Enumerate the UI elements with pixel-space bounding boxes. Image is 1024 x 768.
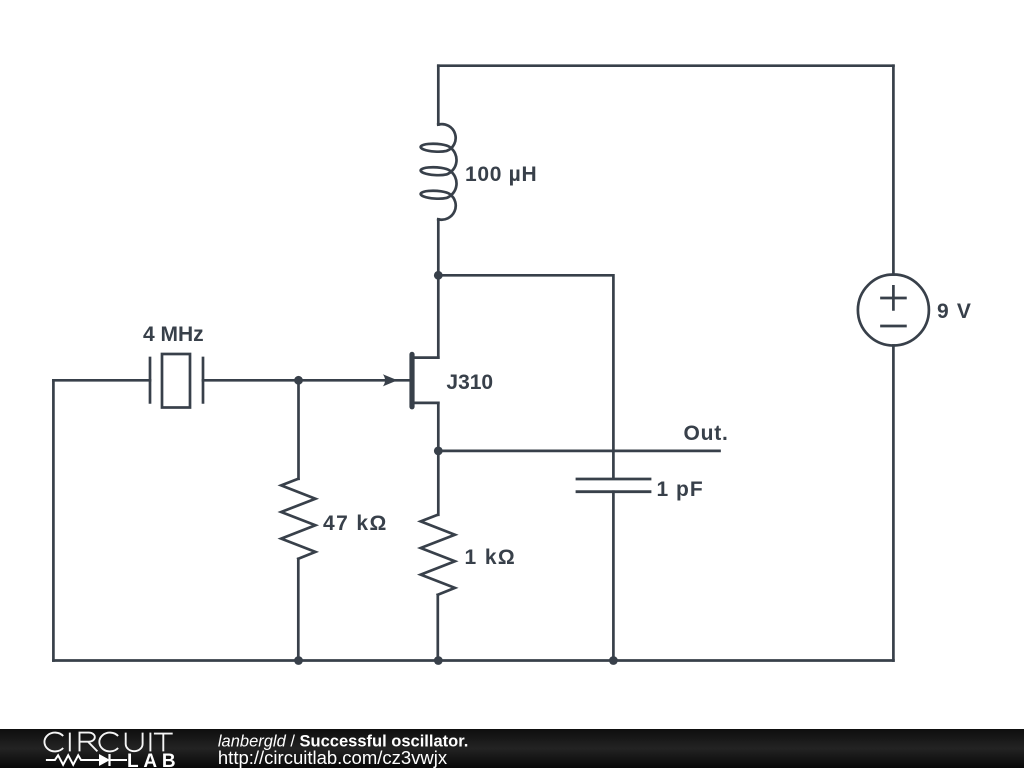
svg-text:47 kΩ: 47 kΩ [323,512,388,535]
svg-text:http://circuitlab.com/cz3vwjx: http://circuitlab.com/cz3vwjx [218,747,448,768]
node dot source/out [434,447,443,456]
wire inductor bottom lead to drain tee [437,219,440,275]
svg-text:100 µH: 100 µH [465,163,537,186]
svg-text:4 MHz: 4 MHz [143,323,204,346]
wire V+ branch lower [892,346,895,661]
voltage source V1 circle [858,275,929,346]
voltage source minus sign [882,325,906,328]
footer bar [0,729,1024,768]
inductor L1 coil [421,124,457,220]
crystal X1 plates and body [150,354,203,408]
wire crystal junction down to 47k [297,380,300,479]
capacitor C1 plates [577,479,650,492]
wire tee to capacitor branch top [438,275,613,477]
wire 1k bottom lead [436,595,439,661]
wire JFET source down to out node [437,403,440,451]
node dot gate junction [294,376,303,385]
svg-text:1 pF: 1 pF [657,478,704,501]
transistor Q1 J310 JFET [383,354,439,406]
logo resistor-diode glyph [46,754,127,766]
svg-text:9 V: 9 V [937,300,972,323]
resistor R1 47k zigzag [281,479,315,559]
CircuitLab logo CIRCUIT [44,733,172,752]
wire out node to 1k top [437,451,440,515]
wire gate row left of crystal [53,379,150,382]
node dot bottom cap [609,656,618,665]
wire top rail [438,64,893,67]
wire crystal to gate [203,379,411,382]
node dot drain tee [434,271,443,280]
wire bottom rail [53,659,893,662]
svg-text:LAB: LAB [127,751,180,768]
wire inductor top lead [437,66,440,125]
voltage source plus sign [882,286,906,309]
svg-text:1 kΩ: 1 kΩ [465,546,517,569]
wire left rail [52,380,55,660]
svg-text:J310: J310 [446,371,493,394]
node dot bottom 1k [434,656,443,665]
wire capacitor bottom lead [612,492,615,661]
wire JFET drain vertical [437,275,440,357]
wire V+ branch upper [892,66,895,275]
node dot bottom 47k [294,656,303,665]
svg-text:Out.: Out. [684,422,729,445]
resistor R2 1k zigzag [421,515,455,595]
wire Out. [438,450,719,453]
wire 47k bottom lead [297,559,300,661]
